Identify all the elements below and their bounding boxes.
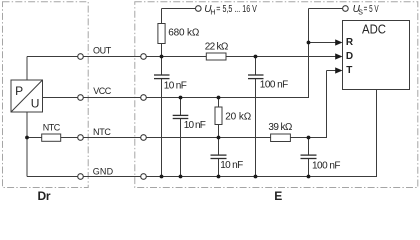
svg-text:U: U bbox=[31, 97, 40, 111]
svg-text:NTC: NTC bbox=[43, 123, 61, 133]
svg-text:680 kΩ: 680 kΩ bbox=[168, 28, 200, 39]
svg-text:P: P bbox=[15, 84, 23, 98]
svg-text:E: E bbox=[274, 189, 282, 201]
svg-text:10 nF: 10 nF bbox=[220, 160, 243, 171]
svg-text:H: H bbox=[210, 9, 215, 16]
svg-text:NTC: NTC bbox=[93, 127, 111, 137]
svg-text:10 nF: 10 nF bbox=[184, 120, 206, 131]
svg-text:= 5 V: = 5 V bbox=[364, 4, 379, 15]
svg-text:= 5,5 ... 16 V: = 5,5 ... 16 V bbox=[216, 4, 257, 15]
svg-text:VCC: VCC bbox=[93, 86, 111, 96]
svg-text:D: D bbox=[346, 51, 353, 62]
svg-text:20 kΩ: 20 kΩ bbox=[225, 112, 252, 123]
svg-text:OUT: OUT bbox=[93, 46, 112, 56]
svg-text:22 kΩ: 22 kΩ bbox=[205, 41, 229, 52]
svg-text:100 nF: 100 nF bbox=[312, 161, 341, 172]
svg-text:GND: GND bbox=[93, 166, 114, 176]
svg-text:T: T bbox=[346, 65, 352, 76]
svg-text:Dr: Dr bbox=[38, 189, 51, 201]
svg-text:ADC: ADC bbox=[362, 22, 386, 37]
svg-text:39 kΩ: 39 kΩ bbox=[268, 122, 293, 133]
svg-text:R: R bbox=[346, 37, 354, 48]
svg-text:100 nF: 100 nF bbox=[260, 80, 288, 91]
svg-text:S: S bbox=[358, 9, 363, 16]
svg-text:10 nF: 10 nF bbox=[164, 81, 187, 92]
